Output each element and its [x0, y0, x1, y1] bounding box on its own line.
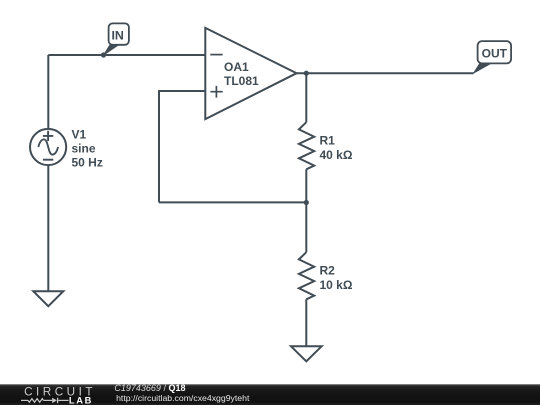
svg-text:LAB: LAB [69, 396, 93, 405]
svg-text:OUT: OUT [482, 46, 508, 60]
op-amp OA1 triangle body [205, 28, 296, 119]
footer black bar [0, 384, 540, 405]
wire top horizontal from V1 to op-amp minus input [48, 54, 206, 56]
ground symbol below R2 [291, 346, 322, 361]
wire from R1 bottom to junction node [305, 169, 307, 202]
footer id line [114, 384, 185, 393]
CircuitLab logo [21, 385, 99, 405]
wire from V1 bottom down to ground [47, 165, 49, 291]
OUT flag box [478, 41, 512, 63]
logo resistor zigzag [21, 399, 69, 403]
resistor R2 zigzag [299, 252, 314, 299]
V1 plus sign [43, 131, 53, 141]
svg-text:50 Hz: 50 Hz [72, 156, 103, 170]
op-amp minus input symbol [210, 54, 222, 56]
svg-text:10 kΩ: 10 kΩ [320, 278, 353, 292]
footer url line [116, 394, 249, 403]
svg-text:sine: sine [72, 142, 96, 156]
OUT flag pointer [473, 63, 491, 73]
wire from output junction down to R1 [305, 73, 307, 122]
V1 minus sign [43, 159, 53, 161]
svg-text:R1: R1 [320, 134, 336, 148]
wire feedback from op-amp plus input left and down [159, 91, 206, 202]
wire from junction node down to R2 [305, 202, 307, 252]
svg-text:IN: IN [111, 28, 123, 42]
svg-text:V1: V1 [72, 128, 87, 142]
svg-text:OA1: OA1 [224, 60, 249, 74]
wire from R2 bottom down to ground [305, 299, 307, 346]
junction dot at IN [101, 52, 106, 57]
resistor R1 zigzag [299, 122, 314, 169]
voltage source V1 circle [30, 129, 66, 165]
ground symbol below V1 [33, 291, 63, 306]
wire feedback bottom horizontal to junction [159, 201, 306, 203]
junction dot at R1/R2 node [304, 200, 309, 205]
svg-text:TL081: TL081 [224, 74, 259, 88]
V1 sine wave [38, 139, 58, 154]
svg-text:R2: R2 [320, 264, 336, 278]
logo diode [52, 398, 57, 403]
junction dot at op-amp output [304, 71, 309, 76]
IN flag box [109, 23, 129, 44]
wire left vertical from top wire down to V1 top [47, 55, 49, 129]
IN flag pointer [104, 45, 120, 56]
op-amp plus input symbol [210, 86, 222, 98]
wire op-amp output to OUT flag [297, 72, 474, 74]
svg-text:40 kΩ: 40 kΩ [320, 148, 353, 162]
